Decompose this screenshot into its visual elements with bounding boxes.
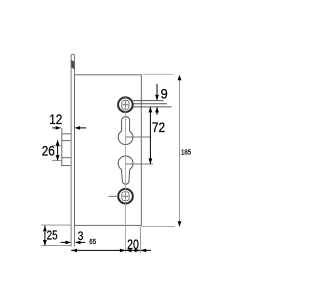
faceplate weld mark: [71, 60, 74, 70]
dim 3: [61, 241, 86, 245]
bottom-left extension lines: [41, 224, 71, 226]
ref line C: [133, 106, 171, 108]
screw hole bottom inner head: [122, 192, 129, 201]
screw hole top inner head: [122, 100, 129, 109]
bolt dim extension bottom: [52, 160, 62, 162]
svg-text:20: 20: [127, 237, 139, 252]
faceplate: [71, 54, 74, 246]
dim 12: [52, 126, 86, 130]
dim 9: [155, 84, 159, 115]
top extension line: [143, 73, 173, 75]
keyhole upper crosshair: [126, 136, 151, 138]
bolt dim extension top: [52, 145, 62, 147]
keyhole lower crosshair: [126, 163, 154, 165]
svg-text:26: 26: [42, 144, 55, 159]
dim 72: [149, 107, 153, 164]
screw hole bottom ring: [118, 189, 133, 204]
screw hole bottom left tick: [108, 195, 118, 197]
svg-text:9: 9: [161, 86, 168, 101]
dim 26: [56, 140, 60, 160]
bolt bottom outer: [62, 165, 71, 167]
screw hole top cross: [123, 104, 128, 106]
dim 65 / 20 baseline: [71, 249, 151, 253]
extension below body right: [139, 227, 141, 253]
svg-text:3: 3: [78, 229, 84, 243]
svg-text:185: 185: [181, 148, 191, 157]
bolt top outer: [62, 133, 71, 135]
keyhole lower (stem down): [118, 156, 133, 184]
svg-text:12: 12: [49, 112, 62, 127]
svg-text:25: 25: [47, 228, 58, 243]
bolt face: [61, 128, 63, 166]
dim 185: [179, 76, 181, 224]
dim 25: [43, 226, 47, 246]
center line: [125, 97, 127, 253]
keyhole upper (stem up): [118, 117, 133, 145]
ref line B: [133, 103, 167, 105]
bolt bottom inner: [62, 157, 71, 159]
svg-text:65: 65: [89, 237, 96, 246]
lock body: [75, 75, 142, 226]
bottom extension line right: [141, 225, 174, 227]
screw hole bottom cross: [123, 195, 128, 197]
bolt top inner: [62, 140, 71, 142]
screw hole top ring: [118, 97, 133, 112]
svg-text:72: 72: [152, 120, 165, 135]
ref line A: [133, 100, 163, 102]
